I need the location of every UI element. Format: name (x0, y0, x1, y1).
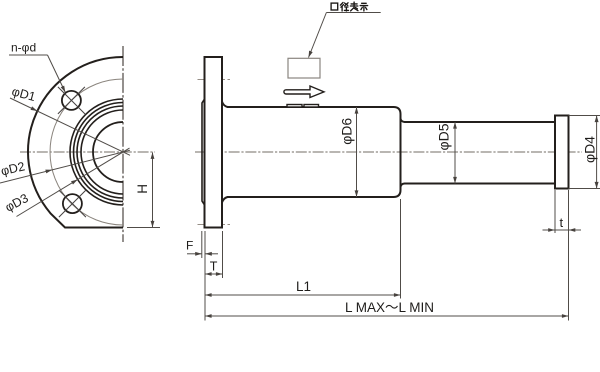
bolt circle centerline top (side view) (198, 79, 231, 81)
dimension t (554, 190, 556, 233)
dimension H (127, 227, 160, 229)
dimension phiD4 (569, 115, 600, 117)
bolt hole bottom-left (63, 194, 82, 213)
bolt circle centerline bottom (side view) (198, 224, 231, 226)
leader to nameplate (309, 13, 327, 58)
svg-text:T: T (210, 259, 218, 273)
dimension phiD5 (454, 122, 456, 184)
label phiD3 and leader (17, 148, 130, 216)
weld tab 1 on body top (287, 105, 302, 108)
label phiD1 and leader (10, 98, 130, 155)
svg-text:φD4: φD4 (581, 136, 597, 163)
label underline (326, 12, 380, 14)
nameplate rectangle (288, 58, 320, 78)
body (large cylinder, side view) (222, 102, 401, 203)
svg-text:φD5: φD5 (436, 123, 452, 150)
flange outer circle (front view outline with bottom flat and chamfer) (28, 57, 123, 228)
leader n-phid (48, 55, 66, 92)
front view horizontal centerline (20, 151, 155, 153)
flange (side view) (205, 57, 223, 228)
svg-text:n-φd: n-φd (11, 41, 36, 55)
svg-text:F: F (186, 239, 193, 253)
label kuchikei-hyouji (bore indication), drawn strokes (331, 2, 368, 11)
front view vertical centerline (122, 46, 124, 242)
svg-text:H: H (135, 184, 150, 194)
bolt hole top-left (62, 91, 81, 110)
dimension phiD6 (356, 107, 358, 197)
end cap (555, 116, 569, 189)
bore circle r30 (93, 122, 123, 182)
label phiD2 and leader (0, 150, 130, 183)
flow direction arrow (284, 86, 324, 98)
svg-text:L MAX～L MIN: L MAX～L MIN (345, 300, 434, 315)
pipe top edge (401, 119, 556, 123)
dimension L MAX to L MIN (568, 190, 570, 321)
side view horizontal centerline (195, 151, 582, 153)
dimension L1 (400, 199, 402, 299)
dimension F (201, 231, 203, 258)
bolt hole bottom-left centerlines (59, 190, 86, 217)
bolt hole top-left centerlines (58, 87, 85, 114)
gasket face rings (phiD3 group) (70, 99, 123, 205)
svg-text:t: t (560, 215, 564, 230)
raised gasket face (side view) (202, 99, 205, 205)
dimension T (222, 231, 224, 278)
svg-text:L1: L1 (296, 279, 311, 294)
weld tab 2 on body top (304, 105, 319, 108)
pipe bottom edge (401, 184, 556, 188)
bolt circle (thin arc r73) (50, 79, 123, 225)
svg-text:φD6: φD6 (339, 118, 355, 145)
